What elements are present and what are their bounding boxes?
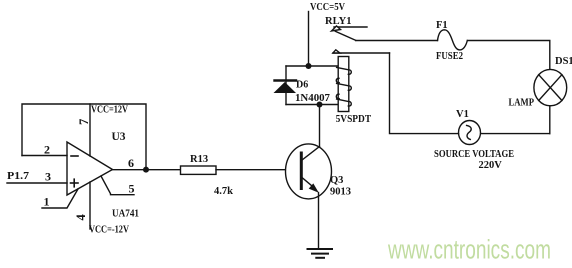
lamp DS1	[534, 69, 567, 105]
svg-text:U3: U3	[112, 131, 126, 143]
wire pin 5	[101, 176, 134, 195]
svg-text:3: 3	[45, 169, 51, 183]
wire pin 2 (inverting input)	[22, 155, 67, 157]
wire pin 1	[42, 189, 78, 208]
svg-text:UA741: UA741	[112, 208, 139, 220]
svg-text:D6: D6	[296, 80, 308, 91]
svg-text:7: 7	[77, 119, 91, 125]
wire Q3 collector	[319, 105, 321, 147]
svg-text:VCC=5V: VCC=5V	[310, 2, 346, 13]
svg-text:5: 5	[129, 182, 135, 196]
wire fuse to lamp	[468, 41, 550, 70]
wire V1 to relay contact	[390, 53, 459, 134]
svg-text:1: 1	[44, 195, 50, 209]
svg-text:2: 2	[44, 143, 50, 157]
wire bottom rail D6/relay	[286, 104, 338, 106]
svg-text:FUSE2: FUSE2	[436, 51, 463, 62]
relay RLY1 coil	[336, 57, 351, 112]
ground	[308, 249, 333, 258]
wire VCC=5V feed	[308, 12, 310, 67]
diode D6	[274, 81, 297, 94]
svg-text:220V: 220V	[479, 160, 503, 171]
svg-text:9013: 9013	[330, 187, 351, 198]
svg-text:4: 4	[74, 214, 88, 221]
wire R13 to Q3 base	[216, 169, 301, 171]
junction dot collector / bottom rail	[317, 102, 323, 108]
feedback wire output to pin 2	[22, 104, 146, 170]
wire top rail D6/relay	[286, 65, 338, 67]
svg-text:LAMP: LAMP	[509, 98, 535, 109]
wire blade to fuse	[356, 40, 438, 42]
wire bottom 220V loop right	[481, 133, 550, 135]
svg-text:VCC=12V: VCC=12V	[91, 105, 129, 116]
svg-text:5VSPDT: 5VSPDT	[336, 114, 372, 125]
svg-text:DS1: DS1	[555, 56, 572, 67]
wire pin 3 input P1.7	[7, 182, 67, 184]
wire pin 7 (V+)	[89, 104, 91, 156]
svg-text:www.cntronics.com: www.cntronics.com	[387, 234, 551, 264]
svg-text:1N4007: 1N4007	[295, 93, 330, 104]
svg-text:4.7k: 4.7k	[214, 186, 233, 197]
source V1	[459, 121, 481, 145]
relay contact stub (upper throw)	[332, 26, 368, 31]
wire lamp to bottom rail	[549, 106, 551, 134]
transistor Q3	[286, 144, 332, 199]
svg-text:6: 6	[128, 156, 134, 170]
junction dot output/feedback	[143, 167, 149, 173]
junction dot VCC rail	[306, 63, 312, 69]
fuse F1	[438, 30, 468, 50]
relay contact (lower throw)	[333, 50, 390, 53]
resistor R13	[181, 166, 217, 174]
svg-text:RLY1: RLY1	[325, 16, 351, 27]
op-amp U1 triangle	[67, 142, 113, 195]
wire Q3 emitter to ground	[318, 193, 320, 249]
svg-text:VCC=-12V: VCC=-12V	[89, 225, 130, 236]
svg-text:Q3: Q3	[330, 175, 343, 186]
wire pin 6 output	[113, 169, 181, 171]
svg-text:P1.7: P1.7	[7, 170, 30, 182]
svg-text:SOURCE VOLTAGE: SOURCE VOLTAGE	[434, 149, 514, 160]
relay switch common blade	[335, 31, 355, 40]
svg-text:F1: F1	[436, 20, 448, 31]
wire D6 branch vertical	[285, 66, 287, 105]
svg-text:V1: V1	[456, 109, 469, 120]
wire pin 4 (V-)	[89, 182, 91, 229]
svg-text:R13: R13	[190, 154, 208, 165]
